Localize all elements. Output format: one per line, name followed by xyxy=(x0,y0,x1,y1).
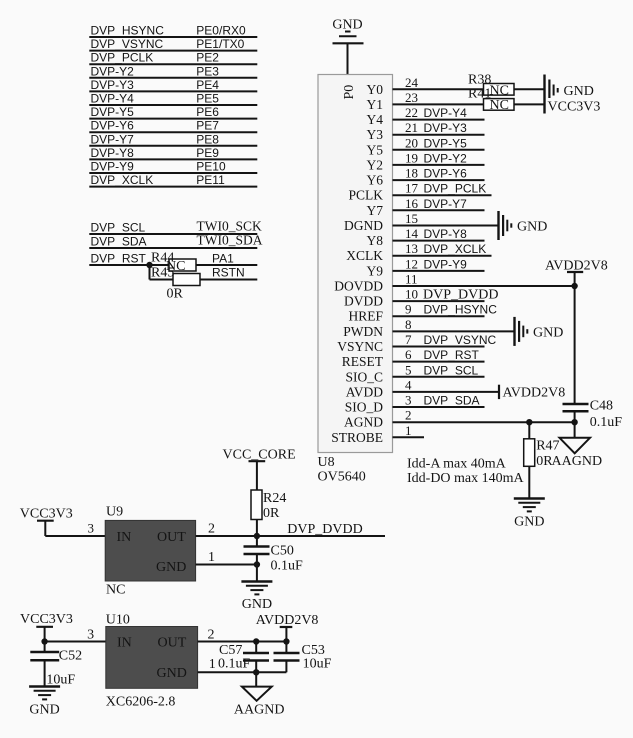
wire net DVP_XCLK to PE11 xyxy=(89,173,257,187)
svg-text:U8: U8 xyxy=(318,455,335,470)
pin 14 Y8 xyxy=(367,226,419,248)
svg-text:DVP_XCLK: DVP_XCLK xyxy=(424,242,487,256)
pin 24 Y0 xyxy=(367,75,419,97)
svg-text:DVP-Y3: DVP-Y3 xyxy=(91,78,135,92)
svg-text:DVP_SDA: DVP_SDA xyxy=(91,235,147,249)
wire pin 3 net DVP_SDA xyxy=(393,394,485,408)
svg-text:DVP_SCL: DVP_SCL xyxy=(424,363,479,377)
capacitor C52 10uF xyxy=(30,642,82,688)
svg-text:XC6206-2.8: XC6206-2.8 xyxy=(106,695,176,710)
wire pin 1 STROBE xyxy=(393,436,425,438)
svg-text:HREF: HREF xyxy=(348,309,383,324)
wire net DVP_RST xyxy=(89,252,169,266)
wire pin 23 to R41 xyxy=(393,103,484,105)
svg-text:NC: NC xyxy=(490,98,509,113)
svg-text:DVDD: DVDD xyxy=(344,294,383,309)
wire net DVP_PCLK to PE2 xyxy=(89,51,257,65)
pin 23 Y1 xyxy=(367,90,419,112)
svg-text:0R: 0R xyxy=(167,287,184,302)
svg-text:DVP-Y5: DVP-Y5 xyxy=(91,105,135,119)
svg-text:DVP_DVDD: DVP_DVDD xyxy=(423,288,498,303)
svg-text:XCLK: XCLK xyxy=(346,248,383,263)
wire net DVP-Y6 to PE7 xyxy=(89,119,257,133)
pin 2 AGND xyxy=(344,408,412,430)
pin 7 VSYNC xyxy=(337,332,412,354)
svg-text:PE9: PE9 xyxy=(196,146,219,160)
svg-text:Y4: Y4 xyxy=(367,112,384,127)
node junction VCC3V3/C52 xyxy=(41,638,47,644)
svg-text:PA1: PA1 xyxy=(212,252,234,266)
svg-text:PE11: PE11 xyxy=(196,173,225,187)
resistor R44 NC xyxy=(151,251,196,275)
pin 22 Y4 xyxy=(367,105,419,127)
wire net DVP_SCL to TWI0 SCK xyxy=(89,219,262,235)
svg-text:Y1: Y1 xyxy=(367,97,384,112)
wire net DVP-Y2 to PE3 xyxy=(89,64,257,78)
svg-text:22: 22 xyxy=(405,105,418,120)
svg-text:DVP-Y8: DVP-Y8 xyxy=(424,227,468,241)
svg-text:Y9: Y9 xyxy=(367,263,384,278)
svg-text:GND: GND xyxy=(29,703,59,718)
svg-text:R47: R47 xyxy=(536,439,559,454)
svg-text:DVP_PCLK: DVP_PCLK xyxy=(424,182,487,196)
svg-text:GND: GND xyxy=(564,84,594,99)
wire pin 19 net DVP-Y2 xyxy=(393,151,485,165)
svg-text:AVDD: AVDD xyxy=(346,384,384,399)
svg-text:DVP-Y9: DVP-Y9 xyxy=(91,160,135,174)
wire pin 5 net DVP_SCL xyxy=(393,363,485,377)
ground GND below C52 xyxy=(29,687,60,718)
svg-text:GND: GND xyxy=(157,666,187,681)
wire pin 7 net DVP_VSYNC xyxy=(393,333,497,347)
pin 20 Y5 xyxy=(367,135,419,157)
svg-text:Y0: Y0 xyxy=(367,82,384,97)
wire AVDD2V8 rail to C48 xyxy=(574,286,576,404)
svg-text:13: 13 xyxy=(405,241,418,256)
ground GND below R47 xyxy=(514,499,545,530)
wire C48 to AGND net xyxy=(574,411,576,422)
svg-text:2: 2 xyxy=(208,522,215,537)
wire pin 17 net DVP_PCLK xyxy=(393,182,492,196)
ground GND at pin 15 xyxy=(499,211,548,240)
svg-text:PWDN: PWDN xyxy=(343,324,383,339)
wire net DVP-Y9 to PE10 xyxy=(89,160,257,174)
svg-text:DVP_SCL: DVP_SCL xyxy=(91,221,146,235)
wire R38 to GND bar xyxy=(514,88,545,90)
svg-text:1: 1 xyxy=(208,550,215,565)
wire U10 GND pin 1 xyxy=(198,657,287,672)
capacitor C50 0.1uF xyxy=(244,536,304,574)
svg-text:4: 4 xyxy=(405,377,412,392)
svg-text:Y7: Y7 xyxy=(367,203,384,218)
wire R47 to GND xyxy=(528,466,530,498)
pin 12 Y9 xyxy=(367,256,419,278)
pin 13 XCLK xyxy=(346,241,418,263)
svg-text:R41: R41 xyxy=(468,87,491,102)
ground GND below U9 xyxy=(241,582,272,613)
svg-text:0R: 0R xyxy=(263,506,280,521)
wire R45 to RSTN xyxy=(200,266,257,280)
svg-text:AAGND: AAGND xyxy=(552,454,603,469)
node junction OUT/AVDD2V8/C53 xyxy=(283,638,289,644)
svg-text:DVP_RST: DVP_RST xyxy=(424,348,480,362)
svg-text:SIO_C: SIO_C xyxy=(345,369,383,384)
svg-text:Y5: Y5 xyxy=(367,142,384,157)
svg-text:PE7: PE7 xyxy=(196,119,219,133)
svg-text:Idd-DO max 140mA: Idd-DO max 140mA xyxy=(407,471,525,486)
wire pin 11 DOVDD to AVDD2V8 rail xyxy=(393,285,575,287)
wire U10 OUT net AVDD2V8 xyxy=(198,628,287,643)
svg-text:IN: IN xyxy=(117,635,132,650)
svg-text:DVP-Y5: DVP-Y5 xyxy=(424,136,468,150)
wire pin 22 net DVP-Y4 xyxy=(393,106,485,120)
svg-text:DVP_XCLK: DVP_XCLK xyxy=(91,173,154,187)
svg-text:C48: C48 xyxy=(590,399,613,414)
svg-text:11: 11 xyxy=(405,272,418,287)
svg-text:0R: 0R xyxy=(536,454,553,469)
node junction R47 top xyxy=(526,419,532,425)
svg-text:PE3: PE3 xyxy=(196,64,219,78)
pin 19 Y2 xyxy=(367,150,419,172)
svg-text:10: 10 xyxy=(405,287,418,302)
svg-text:12: 12 xyxy=(405,256,418,271)
svg-text:TWI0_SCK: TWI0_SCK xyxy=(197,219,262,234)
wire pin 10 net DVP_DVDD xyxy=(393,288,499,303)
pin 9 HREF xyxy=(348,302,411,324)
wire U9 GND pin 1 xyxy=(196,550,257,565)
svg-text:DVP_RST: DVP_RST xyxy=(91,252,147,266)
svg-text:PE10: PE10 xyxy=(196,160,226,174)
wire net DVP-Y5 to PE6 xyxy=(89,105,257,119)
svg-text:5: 5 xyxy=(405,362,412,377)
ground GND sideways at pins 24/23 xyxy=(545,75,594,114)
resistor R38 NC xyxy=(468,73,514,99)
pin 11 DOVDD xyxy=(334,272,417,294)
wire GND to U8 xyxy=(347,43,349,74)
svg-text:PE5: PE5 xyxy=(196,92,219,106)
wire net DVP_VSYNC to PE1/TX0 xyxy=(89,37,257,51)
svg-text:DVP_HSYNC: DVP_HSYNC xyxy=(424,303,498,317)
resistor R41 NC xyxy=(468,87,514,113)
svg-text:DGND: DGND xyxy=(344,218,383,233)
svg-text:DVP_SDA: DVP_SDA xyxy=(424,394,480,408)
svg-text:DVP-Y6: DVP-Y6 xyxy=(424,167,468,181)
svg-text:PE1/TX0: PE1/TX0 xyxy=(196,37,244,51)
svg-text:GND: GND xyxy=(517,220,547,235)
svg-text:SIO_D: SIO_D xyxy=(345,400,384,415)
svg-text:VSYNC: VSYNC xyxy=(337,339,383,354)
wire net DVP-Y7 to PE8 xyxy=(89,132,257,146)
svg-text:DVP-Y4: DVP-Y4 xyxy=(424,106,468,120)
svg-text:OV5640: OV5640 xyxy=(318,470,366,485)
svg-text:14: 14 xyxy=(405,226,419,241)
pin 4 AVDD xyxy=(346,377,412,399)
pin 5 SIO_C xyxy=(345,362,411,384)
svg-text:NC: NC xyxy=(490,83,509,98)
wire R24 to DVP_DVDD node xyxy=(256,520,258,537)
svg-text:VCC3V3: VCC3V3 xyxy=(20,612,73,627)
svg-text:GND: GND xyxy=(533,325,563,340)
svg-text:VCC3V3: VCC3V3 xyxy=(20,507,73,522)
svg-text:PE0/RX0: PE0/RX0 xyxy=(196,24,246,38)
svg-text:DVP_PCLK: DVP_PCLK xyxy=(91,51,154,65)
wire junction to R45 xyxy=(150,265,174,280)
ground GND top xyxy=(332,18,363,44)
svg-text:10uF: 10uF xyxy=(303,657,332,672)
pin 8 PWDN xyxy=(343,317,411,339)
svg-text:PE8: PE8 xyxy=(196,132,219,146)
wire to AAGND flag xyxy=(255,672,257,686)
svg-text:DVP_VSYNC: DVP_VSYNC xyxy=(424,333,497,347)
svg-text:AGND: AGND xyxy=(344,415,383,430)
svg-text:C52: C52 xyxy=(59,649,82,664)
svg-text:21: 21 xyxy=(405,120,418,135)
svg-text:AVDD2V8: AVDD2V8 xyxy=(503,386,566,401)
pin 6 RESET xyxy=(342,347,412,369)
wire pin 16 net DVP-Y7 xyxy=(393,197,485,211)
svg-text:DVP_VSYNC: DVP_VSYNC xyxy=(91,37,164,51)
wire U9 OUT net DVP_DVDD xyxy=(196,522,385,538)
capacitor C53 10uF xyxy=(274,642,332,673)
resistor R47 0R xyxy=(524,439,560,470)
node junction GND/C50 xyxy=(254,561,260,567)
power AAGND flag at U10 xyxy=(234,687,285,718)
svg-text:1: 1 xyxy=(405,423,412,438)
svg-text:DVP_HSYNC: DVP_HSYNC xyxy=(91,24,165,38)
svg-text:3: 3 xyxy=(405,393,412,408)
svg-text:DVP-Y7: DVP-Y7 xyxy=(424,197,468,211)
resistor R45 0R xyxy=(151,266,200,302)
node junction OUT/C57 xyxy=(253,638,259,644)
node junction GND/C57/AAGND xyxy=(253,669,259,675)
svg-text:6: 6 xyxy=(405,347,412,362)
power AAGND flag right xyxy=(552,438,603,469)
node junction OUT/R24/C50 xyxy=(254,533,260,539)
power AVDD2V8 top xyxy=(545,259,608,287)
wire pin 18 net DVP-Y6 xyxy=(393,167,485,181)
svg-text:2: 2 xyxy=(208,628,215,643)
pin 18 Y6 xyxy=(367,166,419,188)
svg-text:24: 24 xyxy=(405,75,419,90)
node junction DVP_RST xyxy=(146,262,152,268)
svg-text:GND: GND xyxy=(514,515,544,530)
wire net DVP-Y4 to PE5 xyxy=(89,92,257,106)
pin 15 DGND xyxy=(344,211,418,233)
power AVDD2V8 at U10 xyxy=(256,613,319,642)
power VCC3V3 at U10 xyxy=(20,612,73,642)
svg-text:GND: GND xyxy=(242,597,272,612)
svg-text:18: 18 xyxy=(405,166,418,181)
pin 3 SIO_D xyxy=(345,393,412,415)
pin 17 PCLK xyxy=(348,181,418,203)
svg-text:VCC3V3: VCC3V3 xyxy=(548,100,601,115)
svg-text:10uF: 10uF xyxy=(46,673,75,688)
svg-text:0.1uF: 0.1uF xyxy=(271,559,304,574)
wire AGND to R47 xyxy=(528,422,530,439)
svg-text:GND: GND xyxy=(156,560,186,575)
wire pin 14 net DVP-Y8 xyxy=(393,227,485,241)
svg-text:DVP_DVDD: DVP_DVDD xyxy=(287,522,362,537)
svg-text:PE4: PE4 xyxy=(196,78,219,92)
svg-text:19: 19 xyxy=(405,150,418,165)
svg-text:DVP-Y7: DVP-Y7 xyxy=(91,132,135,146)
svg-text:OUT: OUT xyxy=(157,530,186,545)
svg-text:0.1uF: 0.1uF xyxy=(218,657,251,672)
pin 10 DVDD xyxy=(344,287,418,309)
regulator U9 body xyxy=(105,520,195,581)
svg-text:1: 1 xyxy=(209,657,216,672)
no-connect X pin 1 xyxy=(0,0,1,1)
svg-text:7: 7 xyxy=(405,332,412,347)
resistor R24 0R xyxy=(251,490,286,521)
svg-text:0.1uF: 0.1uF xyxy=(590,415,623,430)
svg-text:23: 23 xyxy=(405,90,418,105)
svg-text:20: 20 xyxy=(405,135,418,150)
svg-text:16: 16 xyxy=(405,196,419,211)
svg-text:STROBE: STROBE xyxy=(331,430,383,445)
wire pin 13 net DVP_XCLK xyxy=(393,242,492,256)
pin 21 Y3 xyxy=(367,120,419,142)
wire pin 15 to GND xyxy=(393,225,499,227)
svg-text:3: 3 xyxy=(88,521,95,536)
svg-text:IN: IN xyxy=(117,530,132,545)
svg-text:PE6: PE6 xyxy=(196,105,219,119)
wire pin 2 AGND xyxy=(393,421,575,423)
power VCC_CORE xyxy=(223,448,296,491)
svg-text:R45: R45 xyxy=(151,266,174,281)
svg-text:AVDD2V8: AVDD2V8 xyxy=(256,613,319,628)
svg-text:DVP-Y4: DVP-Y4 xyxy=(91,92,135,106)
svg-text:8: 8 xyxy=(405,317,412,332)
svg-text:Y2: Y2 xyxy=(367,157,384,172)
svg-text:R38: R38 xyxy=(468,73,491,88)
svg-text:Y8: Y8 xyxy=(367,233,384,248)
wire VCC3V3 to U9 IN xyxy=(45,521,105,537)
node junction C48 bottom xyxy=(571,419,577,425)
svg-text:DVP-Y2: DVP-Y2 xyxy=(424,151,468,165)
wire to GND symbol xyxy=(256,565,258,582)
wire pin 6 net DVP_RST xyxy=(393,348,485,362)
wire pin 8 to GND xyxy=(393,330,515,332)
svg-text:Y6: Y6 xyxy=(367,173,384,188)
svg-text:RESET: RESET xyxy=(342,354,384,369)
pin 1 STROBE xyxy=(331,423,411,445)
ground GND at pin 8 xyxy=(515,317,564,346)
svg-text:GND: GND xyxy=(332,18,362,33)
svg-text:NC: NC xyxy=(106,583,125,598)
wire net DVP_SDA to TWI0 SDA xyxy=(89,233,262,249)
svg-text:DVP-Y6: DVP-Y6 xyxy=(91,119,135,133)
wire pin 21 net DVP-Y3 xyxy=(393,121,485,135)
wire VCC3V3 to U10 IN xyxy=(45,628,106,643)
svg-text:DVP-Y3: DVP-Y3 xyxy=(424,121,468,135)
svg-text:TWI0_SDA: TWI0_SDA xyxy=(197,233,263,248)
svg-text:DVP-Y8: DVP-Y8 xyxy=(91,146,135,160)
svg-text:3: 3 xyxy=(87,628,94,643)
pin 16 Y7 xyxy=(367,196,419,218)
wire net DVP-Y8 to PE9 xyxy=(89,146,257,160)
node junction pin11/AVDD2V8 xyxy=(571,283,577,289)
wire pin 12 net DVP-Y9 xyxy=(393,257,485,271)
svg-text:9: 9 xyxy=(405,302,412,317)
svg-text:R24: R24 xyxy=(263,491,286,506)
wire pin 4 to AVDD2V8 xyxy=(393,385,500,399)
power VCC3V3 at U9 xyxy=(20,507,73,537)
wire net DVP_HSYNC to PE0/RX0 xyxy=(89,24,257,38)
wire pin 9 net DVP_HSYNC xyxy=(393,303,498,317)
svg-text:U10: U10 xyxy=(106,613,130,628)
svg-text:U9: U9 xyxy=(106,505,123,520)
svg-text:RSTN: RSTN xyxy=(212,266,245,280)
svg-text:PE2: PE2 xyxy=(196,51,219,65)
capacitor C48 0.1uF xyxy=(563,399,623,431)
svg-text:DVP-Y2: DVP-Y2 xyxy=(91,64,135,78)
wire R44 to PA1 xyxy=(196,252,257,266)
svg-text:DVP-Y9: DVP-Y9 xyxy=(424,257,468,271)
svg-text:15: 15 xyxy=(405,211,418,226)
op-amp U8 OV5640 body xyxy=(318,75,393,453)
wire pin 20 net DVP-Y5 xyxy=(393,136,485,150)
svg-text:Y3: Y3 xyxy=(367,127,384,142)
wire pin 24 to R38 xyxy=(393,88,484,90)
svg-text:DOVDD: DOVDD xyxy=(334,279,383,294)
svg-text:Idd-A max 40mA: Idd-A max 40mA xyxy=(407,457,507,472)
svg-text:OUT: OUT xyxy=(158,635,187,650)
wire AGND net down to AAGND xyxy=(574,422,576,438)
svg-text:C50: C50 xyxy=(271,544,294,559)
svg-text:AAGND: AAGND xyxy=(234,703,285,718)
wire net DVP-Y3 to PE4 xyxy=(89,78,257,92)
svg-text:P0: P0 xyxy=(342,85,357,100)
regulator U10 body xyxy=(106,627,198,689)
wire R41 to VCC3V3 bar xyxy=(514,103,545,105)
capacitor C57 0.1uF xyxy=(218,642,269,673)
svg-text:17: 17 xyxy=(405,181,419,196)
svg-text:PCLK: PCLK xyxy=(348,188,383,203)
svg-text:2: 2 xyxy=(405,408,412,423)
